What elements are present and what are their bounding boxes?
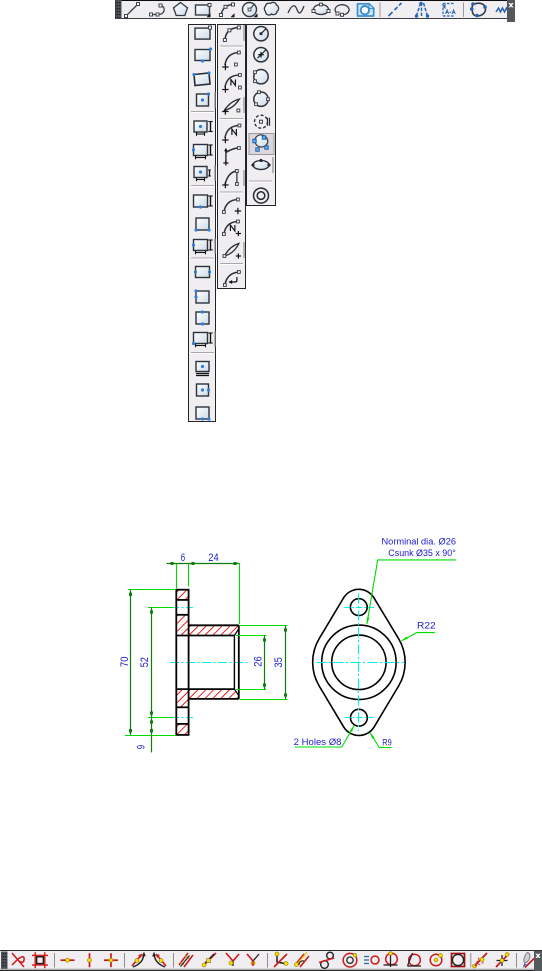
rectangle button	[195, 26, 212, 39]
horizontal centerline front	[317, 662, 405, 664]
circle center-point button	[254, 48, 268, 62]
svg-text:24: 24	[208, 552, 218, 564]
arc 3 point button	[223, 26, 240, 42]
section line A-A tool button	[443, 4, 455, 17]
flange front outline	[313, 589, 405, 735]
dim line 52/9	[151, 607, 153, 752]
group tick	[243, 242, 245, 258]
separator	[54, 953, 56, 968]
construction line tool button	[389, 3, 402, 16]
group tick	[214, 92, 216, 108]
dim line 70	[130, 589, 132, 735]
centerline bottom hole (left view)	[172, 717, 195, 719]
rect corner-size button	[192, 145, 213, 160]
circle center-radius button	[254, 27, 268, 41]
rect center-right button	[197, 384, 211, 396]
point constraint tool	[104, 953, 118, 967]
leader R9	[370, 733, 391, 748]
rect top-bottom button	[196, 310, 209, 325]
extension line v ext right of dim 6	[188, 564, 190, 587]
circle 2 point button	[254, 70, 269, 84]
svg-text:Norminal dia. Ø26: Norminal dia. Ø26	[382, 537, 457, 547]
insert picture button (active)	[358, 4, 374, 16]
rect bottom-size button	[194, 195, 213, 209]
bore circle front	[332, 635, 386, 689]
zigzag/sketch tool button	[496, 8, 511, 12]
rect side-size button	[192, 240, 213, 255]
circle tool button (flyout open)	[243, 3, 258, 18]
separator	[191, 111, 214, 113]
group tick	[214, 165, 216, 181]
rect center double button	[196, 362, 209, 376]
extension line h ext top of dim 52	[148, 607, 173, 609]
centerline main (left view)	[170, 662, 249, 664]
circle 3 point button	[254, 91, 270, 107]
extension line h ext top of dim 35	[240, 625, 288, 627]
closed spline tool button	[470, 2, 487, 17]
tangent to curve tool	[152, 953, 166, 968]
toolbar grip handle	[1, 952, 8, 970]
separator	[124, 953, 126, 968]
svg-text:R9: R9	[382, 737, 391, 747]
no constraint tool	[12, 953, 24, 967]
circle tangent 3 (active) button	[249, 134, 274, 155]
elliptical arc tool button	[335, 5, 349, 17]
leader R22	[402, 633, 435, 641]
arrow dim26 top	[263, 636, 266, 642]
rotated rectangle button	[192, 71, 210, 85]
concentric circle tool	[343, 953, 357, 967]
hatch flange upper band and hub top wall	[176, 615, 238, 636]
multiline tool button	[150, 4, 165, 16]
flyout column circles	[246, 24, 276, 206]
extension line h ext bottom of dim 52	[148, 717, 173, 719]
extension line h ext bottom of dim 35	[240, 699, 288, 701]
line tool button	[125, 3, 140, 18]
arrow dim35 bottom	[284, 694, 287, 700]
extension line h ext bottom of dim 70	[125, 735, 176, 737]
countersink bottom chamfer	[234, 689, 238, 695]
circle tangent line tool	[408, 953, 422, 966]
separator	[220, 118, 243, 120]
concentric circles button	[254, 188, 269, 203]
separator	[191, 352, 214, 354]
svg-text:Csunk Ø35 x 90°: Csunk Ø35 x 90°	[388, 548, 456, 558]
bottom hole lower edge	[176, 723, 188, 725]
separator	[470, 953, 472, 968]
hatch flange top band	[176, 590, 188, 600]
horizontal constraint tool	[61, 958, 75, 962]
leader countersink note	[367, 560, 456, 624]
separator	[220, 191, 243, 193]
separator	[220, 45, 243, 47]
bottom toolbar	[0, 950, 542, 971]
rect by corners button	[194, 218, 210, 232]
leader 2 holes	[295, 726, 354, 747]
arrow dim52 top	[150, 608, 153, 614]
arrow dim9 top	[150, 718, 153, 724]
circle radius point tool	[430, 954, 442, 966]
bore bottom edge	[176, 688, 234, 690]
arrow dim35 top	[284, 626, 287, 632]
hub top edge	[189, 624, 239, 626]
top toolbar background	[115, 0, 507, 19]
rect two sides button	[194, 267, 211, 278]
svg-text:35: 35	[273, 657, 285, 667]
circle by dimension tool	[364, 956, 379, 964]
arrow dim6 right	[189, 562, 195, 565]
arc N end button	[223, 220, 242, 236]
rect center-size fixed button	[194, 167, 211, 182]
vertical centerline front	[358, 594, 360, 732]
perpendicular point tool	[496, 953, 509, 967]
countersink circle front	[322, 625, 396, 699]
leader arrow 2 holes	[350, 725, 355, 732]
spline tool button	[288, 6, 304, 13]
parallel distance tool	[202, 953, 216, 967]
hatch flange lower band and hub bottom wall	[176, 689, 238, 707]
countersink top chamfer	[234, 629, 238, 635]
rectangle by center button	[197, 92, 211, 106]
top hole upper edge	[176, 599, 188, 601]
dim line 26	[264, 636, 266, 690]
separator	[379, 3, 381, 18]
group tick	[272, 157, 274, 173]
rect corner dim button	[192, 333, 213, 348]
bottom hole centerline	[345, 717, 374, 719]
arrow dim52 bottom	[150, 712, 153, 718]
polygon tool button	[174, 3, 188, 16]
parallel lines tool	[295, 952, 310, 967]
bottom bolt hole	[351, 709, 368, 726]
rect center-size button	[194, 121, 213, 136]
toolbar grip handle	[116, 0, 122, 19]
separator	[463, 3, 465, 18]
arc center-start-end button	[222, 51, 240, 70]
arc center end button	[223, 198, 242, 214]
separator	[267, 953, 269, 968]
circle tangent line vertical tool	[384, 952, 398, 967]
svg-text:6: 6	[181, 552, 185, 564]
bottom toolbar close button	[534, 951, 542, 971]
tangent two circles tool	[319, 952, 334, 968]
circle in square tool	[452, 954, 465, 967]
top toolbar close button	[507, 0, 515, 22]
tangent from curve tool	[132, 953, 146, 968]
countersink inner edge	[233, 636, 235, 690]
group tick	[214, 238, 216, 254]
hatch flange bottom band	[176, 724, 188, 735]
svg-text:R22: R22	[417, 621, 436, 631]
hub bottom edge	[189, 698, 239, 700]
arc tangent to line button	[223, 147, 240, 166]
arrow dim70 bottom	[129, 729, 132, 735]
svg-text:2 Holes Ø8: 2 Holes Ø8	[294, 737, 342, 747]
group tick	[214, 331, 216, 347]
flyout column rectangles	[188, 24, 216, 422]
inspector pen tool	[523, 953, 534, 969]
arrow dim24 right	[234, 562, 240, 565]
svg-text:52: 52	[139, 657, 151, 667]
separator	[191, 257, 214, 259]
separator	[173, 953, 175, 968]
rectangle by 2 points button	[195, 47, 212, 62]
arc start-end-radius button	[222, 170, 238, 189]
cloud/irregular polygon tool button	[264, 2, 278, 15]
group tick	[243, 170, 245, 186]
flyout column arcs	[217, 24, 246, 289]
intersect angle tool	[226, 953, 239, 966]
svg-text:26: 26	[253, 656, 265, 666]
leader arrow R22	[401, 637, 408, 642]
extension line h ext bottom of dim 26	[236, 689, 266, 691]
flange plate outline	[176, 590, 188, 735]
arrow dim70 top	[129, 590, 132, 596]
arc chord button	[222, 99, 240, 115]
bottom hole upper edge	[176, 706, 188, 708]
bore top edge	[176, 635, 234, 637]
top hole centerline	[344, 607, 374, 609]
svg-text:70: 70	[119, 657, 131, 667]
circle tangent button	[255, 115, 270, 128]
vertical constraint tool	[88, 953, 92, 967]
hub right face	[238, 625, 240, 699]
extension line v ext left of dim 6	[176, 564, 178, 589]
dim line 35	[285, 625, 287, 699]
leader arrow R9	[370, 732, 375, 739]
top bolt hole	[350, 599, 367, 616]
convert to arc button	[224, 271, 241, 287]
angle from lines tool	[274, 952, 288, 967]
top hole lower edge	[176, 614, 188, 616]
svg-text:9: 9	[136, 745, 148, 749]
ellipse fixed ratio button	[251, 159, 270, 170]
separator	[191, 185, 214, 187]
arc tool button (flyout open)	[220, 3, 235, 17]
ellipse tool button	[312, 3, 330, 14]
arc center N button	[222, 74, 241, 93]
line angle dashed tool	[473, 953, 488, 968]
rect bottom corners button	[196, 407, 211, 421]
extension line h ext top of dim 26	[236, 635, 266, 637]
extension line v ext right of dim 24	[239, 564, 241, 624]
separator	[220, 263, 243, 265]
arc chord end button	[223, 244, 241, 259]
double line tool button	[415, 2, 429, 18]
arrow dim9 bottom	[150, 729, 153, 735]
snap to grid tool	[32, 952, 48, 968]
separator	[249, 180, 272, 182]
group tick	[243, 97, 245, 113]
rectangle tool button (flyout open)	[196, 4, 212, 18]
arrow dim6 left	[171, 562, 177, 565]
rect left side button	[194, 289, 209, 303]
group tick	[243, 25, 245, 41]
arrow dim26 bottom	[263, 684, 266, 690]
bisector tool	[247, 954, 259, 966]
arc tangent N button	[222, 124, 241, 143]
centerline top hole (left view)	[172, 607, 195, 609]
dim line 6/24	[167, 563, 240, 565]
leader arrow countersink	[367, 617, 370, 625]
separator	[516, 953, 518, 968]
toolbar bottom shade	[0, 968, 542, 970]
parallel hatch tool	[179, 953, 193, 967]
extension line h ext top of dim 70	[128, 589, 176, 591]
